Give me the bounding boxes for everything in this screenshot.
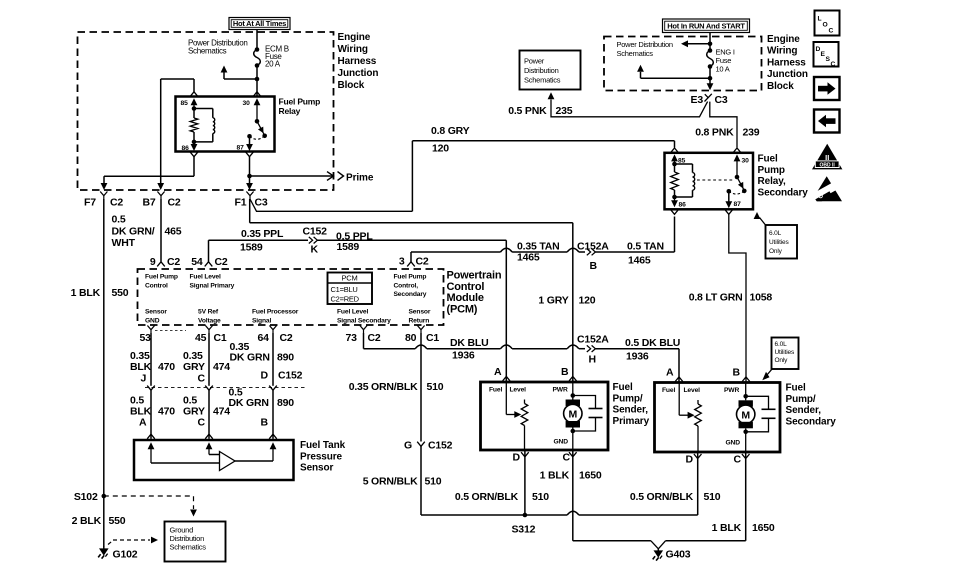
fuel pump motor M2 bbox=[737, 383, 755, 453]
svg-text:0.8 PNK: 0.8 PNK bbox=[695, 127, 734, 139]
svg-text:M: M bbox=[569, 409, 578, 421]
svg-text:465: 465 bbox=[165, 226, 182, 238]
wire: relay pin 87 down to F1 connector bbox=[246, 157, 253, 190]
svg-text:G102: G102 bbox=[113, 549, 138, 561]
svg-text:Relay,: Relay, bbox=[758, 176, 786, 187]
connector C152 pin K (inline) bbox=[303, 226, 328, 256]
wire: 2 BLK 550 from S102 to G102 bbox=[103, 496, 105, 547]
label: 0.5 ORN/BLK 510 (P1) bbox=[455, 491, 549, 503]
svg-text:C2=RED: C2=RED bbox=[331, 295, 360, 304]
svg-text:A: A bbox=[139, 417, 147, 429]
svg-text:Control,: Control, bbox=[394, 282, 419, 289]
svg-text:Fuel: Fuel bbox=[786, 383, 806, 394]
pin 64 C2 (PCM bottom) bbox=[258, 326, 293, 345]
svg-text:Distribution: Distribution bbox=[524, 66, 559, 75]
pin 85 (relay K1) bbox=[181, 92, 198, 109]
svg-text:Hot At All Times: Hot At All Times bbox=[233, 19, 286, 28]
relay K1 switch blade bbox=[255, 119, 267, 138]
relay K1 coil: resistor element bbox=[190, 106, 198, 144]
svg-text:Module: Module bbox=[447, 292, 484, 304]
svg-text:120: 120 bbox=[432, 143, 449, 155]
pin C (sensor) bbox=[206, 442, 213, 454]
label: Fuel Pump/Sender Primary bbox=[613, 382, 650, 427]
sensor: Fuel Tank Pressure Sensor box bbox=[134, 440, 294, 480]
svg-text:DK GRN: DK GRN bbox=[230, 352, 270, 364]
icon: LOC box bbox=[815, 11, 840, 36]
svg-text:510: 510 bbox=[427, 381, 444, 393]
svg-text:5 ORN/BLK: 5 ORN/BLK bbox=[363, 476, 418, 488]
svg-text:Secondary: Secondary bbox=[394, 291, 427, 298]
connector C152 pin J (inline) bbox=[141, 373, 155, 391]
label: Fuel Level PWR (pump P1) bbox=[489, 387, 568, 394]
label: 0.35 TAN 1465 bbox=[517, 241, 560, 264]
svg-text:GND: GND bbox=[554, 439, 569, 446]
pin A label (pump P2) bbox=[666, 367, 674, 379]
svg-text:D: D bbox=[261, 370, 269, 382]
wire: 0.5 PNK 235 to power distribution schematics box bbox=[548, 92, 708, 117]
label: DK BLU 1936 bbox=[450, 337, 488, 362]
label: 0.5 PNK 235 bbox=[508, 105, 573, 117]
svg-text:C: C bbox=[831, 61, 836, 68]
label: 0.35 GRY 474 bbox=[183, 350, 230, 373]
svg-text:0.35 ORN/BLK: 0.35 ORN/BLK bbox=[349, 381, 418, 393]
svg-text:G: G bbox=[404, 440, 412, 452]
svg-text:Schematics: Schematics bbox=[617, 49, 654, 58]
svg-text:C: C bbox=[563, 452, 571, 464]
fuel level sender R1 (pump P1) bbox=[506, 382, 528, 450]
node: junction dot below fuse (block 2) bbox=[708, 76, 713, 81]
reference box: 6.0L Utilities Only (relay) bbox=[766, 225, 798, 259]
svg-text:C: C bbox=[198, 417, 206, 429]
pin A (sensor) bbox=[148, 442, 155, 463]
node: prime branch junction bbox=[247, 174, 252, 179]
svg-text:A: A bbox=[494, 366, 502, 378]
svg-text:Voltage: Voltage bbox=[198, 317, 221, 324]
svg-text:Fuel Pump: Fuel Pump bbox=[279, 96, 321, 106]
wire: hot feed into ENG I fuse bbox=[709, 33, 711, 51]
svg-text:Sender,: Sender, bbox=[786, 405, 822, 416]
label: 0.8 LT GRN 1058 bbox=[689, 292, 773, 304]
svg-text:Sensor: Sensor bbox=[300, 463, 334, 474]
reference box: Power Distribution Schematics bbox=[520, 51, 581, 90]
svg-text:Block: Block bbox=[338, 80, 365, 91]
svg-text:0.8 GRY: 0.8 GRY bbox=[431, 125, 470, 137]
svg-text:K: K bbox=[311, 244, 319, 256]
svg-text:1465: 1465 bbox=[517, 252, 540, 264]
label: Powertrain Control Module (PCM) bbox=[447, 270, 502, 316]
svg-text:C1=BLU: C1=BLU bbox=[331, 285, 358, 294]
label: Fuel Pump Control Secondary (pin 3) bbox=[394, 274, 427, 299]
svg-text:BLK: BLK bbox=[130, 361, 152, 373]
svg-text:235: 235 bbox=[556, 105, 573, 117]
svg-text:1650: 1650 bbox=[752, 522, 775, 534]
svg-text:73: 73 bbox=[346, 332, 358, 344]
svg-text:B: B bbox=[590, 260, 598, 272]
svg-text:C1: C1 bbox=[426, 332, 439, 344]
reference box: 6.0L Utilities Only (pump) bbox=[772, 338, 799, 370]
svg-text:Primary: Primary bbox=[613, 416, 650, 427]
label: 1 BLK 1650 (P2) bbox=[712, 522, 775, 534]
svg-text:WHT: WHT bbox=[112, 237, 136, 249]
svg-text:PCM: PCM bbox=[342, 274, 358, 283]
svg-text:Signal Secondary: Signal Secondary bbox=[337, 317, 391, 324]
icon: ESD warning triangle bbox=[807, 176, 842, 203]
connector F7 C2 bbox=[84, 192, 123, 209]
svg-text:2 BLK: 2 BLK bbox=[72, 515, 102, 527]
label: 0.5 GRY 474 and pin C bbox=[183, 395, 230, 429]
svg-text:0.5: 0.5 bbox=[112, 214, 126, 226]
svg-text:Control: Control bbox=[145, 282, 168, 289]
arrow: 6.0L utilities points to relay K2 bbox=[754, 212, 766, 225]
wire: fuse down through block edge bbox=[707, 67, 714, 91]
pin 3 C2 (PCM) bbox=[399, 256, 429, 268]
svg-text:J: J bbox=[141, 373, 147, 385]
svg-text:S102: S102 bbox=[74, 491, 98, 503]
svg-text:86: 86 bbox=[182, 145, 190, 152]
svg-text:Relay: Relay bbox=[279, 106, 301, 116]
svg-text:C2: C2 bbox=[110, 197, 123, 209]
svg-text:1936: 1936 bbox=[626, 351, 649, 363]
svg-text:474: 474 bbox=[213, 361, 230, 373]
power label: Hot At All Times bbox=[229, 18, 290, 30]
svg-text:510: 510 bbox=[704, 491, 721, 503]
pin 30 (relay K1) bbox=[243, 92, 261, 122]
node: junction to power distribution arrow (block 2) bbox=[708, 42, 713, 47]
svg-text:Fuel: Fuel bbox=[489, 387, 502, 394]
pin 30 (relay K2) bbox=[733, 148, 749, 177]
relay K1: Fuel Pump Relay box bbox=[176, 97, 275, 152]
svg-text:Harness: Harness bbox=[767, 57, 806, 68]
svg-text:Wiring: Wiring bbox=[767, 46, 797, 57]
pin D (pump P1) bbox=[513, 452, 529, 464]
junction block: Engine Wiring Harness Junction Block (dashed) bbox=[78, 32, 334, 190]
wire: 0.35 TAN 1465 from PCM pin 3 to C152A bbox=[411, 248, 585, 262]
svg-text:C2: C2 bbox=[167, 256, 180, 268]
wire: 1 BLK 1650 from pump P1 pin C to G403 bbox=[573, 450, 658, 548]
relay K2: Fuel Pump Relay Secondary box bbox=[665, 153, 754, 210]
module U1: Powertrain Control Module PCM (dashed box) bbox=[138, 269, 444, 325]
svg-text:Block: Block bbox=[767, 81, 794, 92]
svg-text:M: M bbox=[741, 409, 750, 421]
wire: 0.8 GRY 120 from F1 C3 to relay secondary pin 85 bbox=[250, 141, 675, 212]
label: Fuel Tank Pressure Sensor bbox=[300, 440, 346, 474]
svg-text:DK BLU: DK BLU bbox=[450, 337, 488, 349]
svg-text:C2: C2 bbox=[368, 332, 381, 344]
label: ENG I Fuse 10 A bbox=[716, 48, 735, 74]
label: 0.5 ORN/BLK 510 (P2) bbox=[630, 491, 721, 503]
label: 0.35 ORN/BLK 510 bbox=[349, 381, 444, 393]
svg-text:C2: C2 bbox=[215, 256, 228, 268]
fuse F1 ECM B 20 A bbox=[254, 47, 261, 68]
relay K1 switch throw arc (dashed) bbox=[250, 136, 265, 139]
pin B label (pump P1) bbox=[561, 366, 569, 378]
wire: DK BLU 1936 from PCM pin 73 to C152A bbox=[364, 333, 586, 349]
svg-text:C2: C2 bbox=[168, 197, 181, 209]
wire: 5 ORN/BLK 510 from C152 G to S312 bbox=[421, 446, 698, 515]
svg-text:D: D bbox=[686, 454, 694, 466]
svg-text:Powertrain: Powertrain bbox=[447, 270, 502, 282]
capacitor C2 (pump P2 suppression) bbox=[746, 396, 776, 432]
svg-text:1589: 1589 bbox=[240, 242, 263, 254]
label: Fuel Pump Relay Secondary bbox=[758, 154, 809, 199]
svg-text:Level: Level bbox=[684, 387, 701, 394]
relay K2 coil: resistor element bbox=[671, 162, 679, 200]
svg-text:1 BLK: 1 BLK bbox=[540, 470, 570, 482]
wire: 0.5 TAN 1465 from C152A to relay secondary pin 86 bbox=[596, 217, 675, 253]
icon: back arrow box bbox=[814, 110, 840, 133]
ground G102 bbox=[98, 546, 138, 561]
svg-text:B: B bbox=[733, 367, 741, 379]
fuse F2 ENG I 10 A bbox=[707, 48, 714, 69]
svg-text:9: 9 bbox=[150, 256, 156, 268]
svg-text:E3: E3 bbox=[691, 94, 704, 106]
svg-text:1650: 1650 bbox=[579, 470, 602, 482]
svg-text:C: C bbox=[198, 373, 206, 385]
svg-text:1936: 1936 bbox=[452, 350, 475, 362]
pin 86 (relay K2) bbox=[671, 197, 686, 214]
svg-text:OBD II: OBD II bbox=[820, 163, 836, 169]
sensor internal wiring bbox=[151, 455, 273, 464]
pin A label (pump P1) bbox=[494, 366, 502, 378]
pin 45 C1 (PCM bottom) bbox=[195, 326, 227, 345]
svg-text:Secondary: Secondary bbox=[758, 187, 809, 198]
fuel pump P1: Fuel Pump/Sender Primary box bbox=[481, 382, 609, 450]
label: Fuel Pump/Sender Secondary bbox=[786, 383, 837, 428]
svg-text:C152: C152 bbox=[303, 226, 328, 238]
label: 0.5 TAN 1465 bbox=[627, 241, 664, 267]
label: 0.8 PNK 239 bbox=[695, 127, 760, 139]
svg-text:0.5 TAN: 0.5 TAN bbox=[627, 241, 664, 253]
pin 85 (relay K2) bbox=[671, 148, 686, 165]
connector C152 grouping dashes (J C D row) bbox=[145, 386, 305, 388]
label: Fuel Level Signal Secondary (pin 73) bbox=[337, 309, 391, 325]
svg-text:120: 120 bbox=[579, 295, 596, 307]
pin 54 C2 (PCM) bbox=[191, 256, 228, 268]
svg-text:Pump/: Pump/ bbox=[786, 394, 816, 405]
svg-text:87: 87 bbox=[734, 201, 742, 208]
relay K2 actuation line (dashed) bbox=[697, 179, 735, 181]
pin 9 C2 (PCM) bbox=[150, 256, 181, 268]
wire: S102 dashed reference to ground distribution bbox=[104, 496, 197, 517]
connector C152A pin B (inline) bbox=[577, 241, 609, 273]
wire: 0.5 BLK 470 from C152 J to sensor pin A bbox=[147, 390, 155, 439]
svg-text:C152: C152 bbox=[428, 440, 453, 452]
wire: branch to power distribution (left arrow) bbox=[681, 40, 710, 47]
wire: branch to power distribution arrow bbox=[221, 66, 257, 80]
wire: 1 BLK 1650 from pump P2 pin C to G403 bbox=[659, 452, 746, 548]
svg-text:0.5 PNK: 0.5 PNK bbox=[508, 105, 547, 117]
wire: 0.5 ORN/BLK 510 from pump P2 pin D to S312 bbox=[697, 452, 699, 515]
pin D (pump P2) bbox=[686, 454, 702, 466]
svg-text:Pump/: Pump/ bbox=[613, 393, 643, 404]
svg-text:Fuel Pump: Fuel Pump bbox=[394, 274, 427, 281]
label: 2 BLK 550 bbox=[72, 515, 126, 527]
label: Power Distribution Schematics (block 1) bbox=[188, 38, 248, 55]
wire: 0.8 PNK 239 from E3 C3 to relay secondary pin 30 bbox=[710, 102, 737, 148]
label: 0.5 PPL 1589 bbox=[336, 231, 373, 254]
pin 86 (relay K1) bbox=[182, 142, 198, 157]
arrow: 6.0L utilities points to pump P2 bbox=[762, 369, 772, 381]
svg-text:Signal Primary: Signal Primary bbox=[190, 282, 235, 289]
label: 1 GRY 120 bbox=[538, 295, 595, 307]
svg-text:1 BLK: 1 BLK bbox=[71, 287, 101, 299]
svg-text:Fuel Processor: Fuel Processor bbox=[252, 309, 299, 316]
label: Sensor Return (pin 80) bbox=[409, 309, 431, 325]
svg-text:Engine: Engine bbox=[338, 32, 371, 43]
svg-text:Power: Power bbox=[524, 56, 545, 65]
label: Fuel Level PWR (pump P2) bbox=[662, 387, 739, 394]
wire: 1 GRY 120 from F1 C3 to fuel pump primary pin B bbox=[250, 199, 577, 382]
pin C (pump P2) bbox=[734, 454, 750, 466]
svg-text:Level: Level bbox=[510, 387, 527, 394]
svg-text:64: 64 bbox=[258, 332, 270, 344]
sensor internal amplifier (triangle) bbox=[220, 452, 236, 471]
svg-text:Fuel Pump: Fuel Pump bbox=[145, 274, 178, 281]
svg-text:10 A: 10 A bbox=[716, 65, 730, 74]
label: Power Distribution Schematics (block 2) bbox=[617, 40, 673, 58]
svg-text:Pressure: Pressure bbox=[300, 451, 343, 462]
svg-text:D: D bbox=[513, 452, 521, 464]
svg-text:1465: 1465 bbox=[628, 255, 651, 267]
power label: Hot In RUN And START bbox=[663, 19, 750, 33]
connector B7 C2 bbox=[143, 192, 181, 209]
svg-text:Schematics: Schematics bbox=[188, 47, 227, 56]
svg-text:Fuel: Fuel bbox=[613, 382, 633, 393]
svg-text:Sensor: Sensor bbox=[145, 309, 167, 316]
connector E3 C3 bbox=[691, 94, 728, 106]
svg-text:PWR: PWR bbox=[553, 387, 568, 394]
svg-text:0.5 ORN/BLK: 0.5 ORN/BLK bbox=[455, 491, 519, 503]
svg-text:890: 890 bbox=[277, 397, 294, 409]
relay K1 coil: inductor element bbox=[194, 109, 215, 142]
svg-text:550: 550 bbox=[109, 515, 126, 527]
wire: 0.5 DK GRN 890 from C152 D to sensor pin B bbox=[269, 390, 277, 439]
wire: fuse to relay pin 30 bbox=[256, 66, 258, 97]
svg-text:Prime: Prime bbox=[346, 173, 374, 184]
svg-text:54: 54 bbox=[191, 256, 203, 268]
svg-text:0.5 DK BLU: 0.5 DK BLU bbox=[625, 337, 680, 349]
svg-text:239: 239 bbox=[743, 127, 760, 139]
svg-text:GND: GND bbox=[726, 440, 741, 447]
svg-text:80: 80 bbox=[405, 332, 417, 344]
connector C152 pin C (inline) bbox=[198, 373, 213, 391]
wire: relay pin 86 to F7 connector bbox=[101, 157, 194, 190]
svg-text:B: B bbox=[261, 417, 269, 429]
fuel level sender R2 (pump P2) bbox=[679, 383, 701, 453]
svg-text:C3: C3 bbox=[715, 94, 728, 106]
wire: 1 BLK 550 from F7 to S102 bbox=[103, 199, 105, 496]
label: 1 BLK 1650 (P1) bbox=[540, 470, 602, 482]
label: Engine Wiring Harness Junction Block bbox=[338, 32, 379, 91]
wire: 0.5 PPL 1589 from C152 to fuel pump primary pin A bbox=[318, 240, 511, 382]
svg-text:DK GRN: DK GRN bbox=[229, 397, 269, 409]
wire: dashed reference arrow into ground distribution box bbox=[108, 537, 158, 545]
label: 0.5 DK BLU 1936 bbox=[625, 337, 680, 363]
label: Prime bbox=[338, 172, 374, 184]
svg-text:53: 53 bbox=[140, 332, 152, 344]
svg-text:510: 510 bbox=[532, 491, 549, 503]
svg-text:0.8 LT GRN: 0.8 LT GRN bbox=[689, 292, 743, 304]
svg-text:G403: G403 bbox=[666, 549, 691, 561]
svg-text:Fuel: Fuel bbox=[662, 387, 675, 394]
svg-text:45: 45 bbox=[195, 332, 207, 344]
wire: 0.35 PPL 1589 from PCM pin 54 to C152 bbox=[209, 240, 309, 262]
node: junction dot to power-distribution arrow bbox=[255, 77, 260, 82]
node S102 bbox=[74, 491, 106, 503]
connector F1 C3 bbox=[235, 192, 268, 209]
pin C (pump P1) bbox=[563, 452, 577, 464]
connector C152 pin D (inline) bbox=[261, 370, 303, 391]
pin 53 (PCM bottom) bbox=[140, 326, 155, 345]
wire: 0.8 LT GRN 1058 from relay K2 pin 87 to fuel pump secondary pin B bbox=[729, 214, 750, 382]
pin 87 (relay K2) bbox=[725, 189, 741, 214]
wire: 0.5 DK BLU 1936 from C152A to fuel pump secondary pin A bbox=[596, 349, 683, 383]
legend box: PCM C1=BLU C2=RED bbox=[328, 273, 373, 305]
svg-text:A: A bbox=[666, 367, 674, 379]
svg-text:Fuel Level: Fuel Level bbox=[337, 309, 368, 316]
pin 73 C2 (PCM bottom) bbox=[346, 326, 381, 345]
capacitor C1 (pump P1 suppression) bbox=[573, 396, 603, 432]
label: 0.5 DK GRN 890 and pin B bbox=[229, 387, 295, 429]
svg-text:GND: GND bbox=[145, 317, 160, 324]
junction block: Engine Wiring Harness Junction Block 2 (dashed) bbox=[604, 37, 762, 91]
label: 0.8 GRY 120 bbox=[431, 125, 470, 155]
svg-text:C152A: C152A bbox=[577, 334, 609, 346]
svg-text:Utilities: Utilities bbox=[769, 239, 789, 246]
label: Fuel Level Signal Primary (pin 54) bbox=[190, 274, 235, 290]
label: GND (pump P1) bbox=[554, 439, 569, 446]
svg-text:C: C bbox=[829, 28, 834, 35]
pin 87 (relay K1) bbox=[237, 134, 254, 157]
svg-text:30: 30 bbox=[742, 158, 750, 165]
svg-text:Pump: Pump bbox=[758, 165, 785, 176]
svg-text:Sender,: Sender, bbox=[613, 405, 649, 416]
svg-text:O: O bbox=[823, 22, 828, 29]
svg-text:H: H bbox=[589, 354, 596, 366]
label: Fuel Processor Signal (pin 64) bbox=[252, 309, 299, 325]
svg-text:Secondary: Secondary bbox=[786, 416, 837, 427]
svg-text:S312: S312 bbox=[512, 524, 536, 536]
label: 0.35 DK GRN 890 bbox=[230, 341, 295, 364]
svg-text:C: C bbox=[734, 454, 742, 466]
connector grouping dash between pins 53 and 45 bbox=[155, 330, 186, 332]
svg-text:Only: Only bbox=[775, 357, 789, 364]
svg-text:Schematics: Schematics bbox=[170, 543, 207, 552]
connector C152A pin H (inline) bbox=[577, 334, 609, 366]
svg-text:C152: C152 bbox=[278, 370, 303, 382]
label: 5V Ref Voltage (pin 45) bbox=[198, 309, 221, 325]
wire: 0.35 BLK 470 from PCM pin 53 to C152 J bbox=[150, 333, 152, 386]
wire: 0.35 DK GRN 890 from PCM pin 64 to C152 D bbox=[272, 333, 274, 386]
icon: forward arrow box bbox=[814, 77, 840, 100]
svg-text:6.0L: 6.0L bbox=[769, 230, 782, 237]
wire: branch to up arrow (block 2) bbox=[637, 65, 710, 78]
svg-text:0.35 PPL: 0.35 PPL bbox=[241, 228, 284, 240]
ground G403 bbox=[653, 548, 691, 561]
svg-text:1589: 1589 bbox=[337, 241, 360, 253]
label: Sensor GND (pin 53) bbox=[145, 309, 167, 325]
svg-text:Utilities: Utilities bbox=[775, 349, 795, 356]
svg-text:PWR: PWR bbox=[724, 387, 739, 394]
label: Engine Wiring Harness Junction Block (right) bbox=[767, 34, 808, 92]
svg-text:Return: Return bbox=[409, 317, 430, 324]
connector C152 pin G (inline) bbox=[404, 440, 453, 452]
svg-text:(PCM): (PCM) bbox=[447, 303, 478, 315]
label: ECM B Fuse 20 A bbox=[265, 45, 289, 69]
label: 0.35 PPL 1589 bbox=[240, 228, 284, 254]
node S312 bbox=[512, 513, 536, 536]
svg-text:Engine: Engine bbox=[767, 34, 800, 45]
